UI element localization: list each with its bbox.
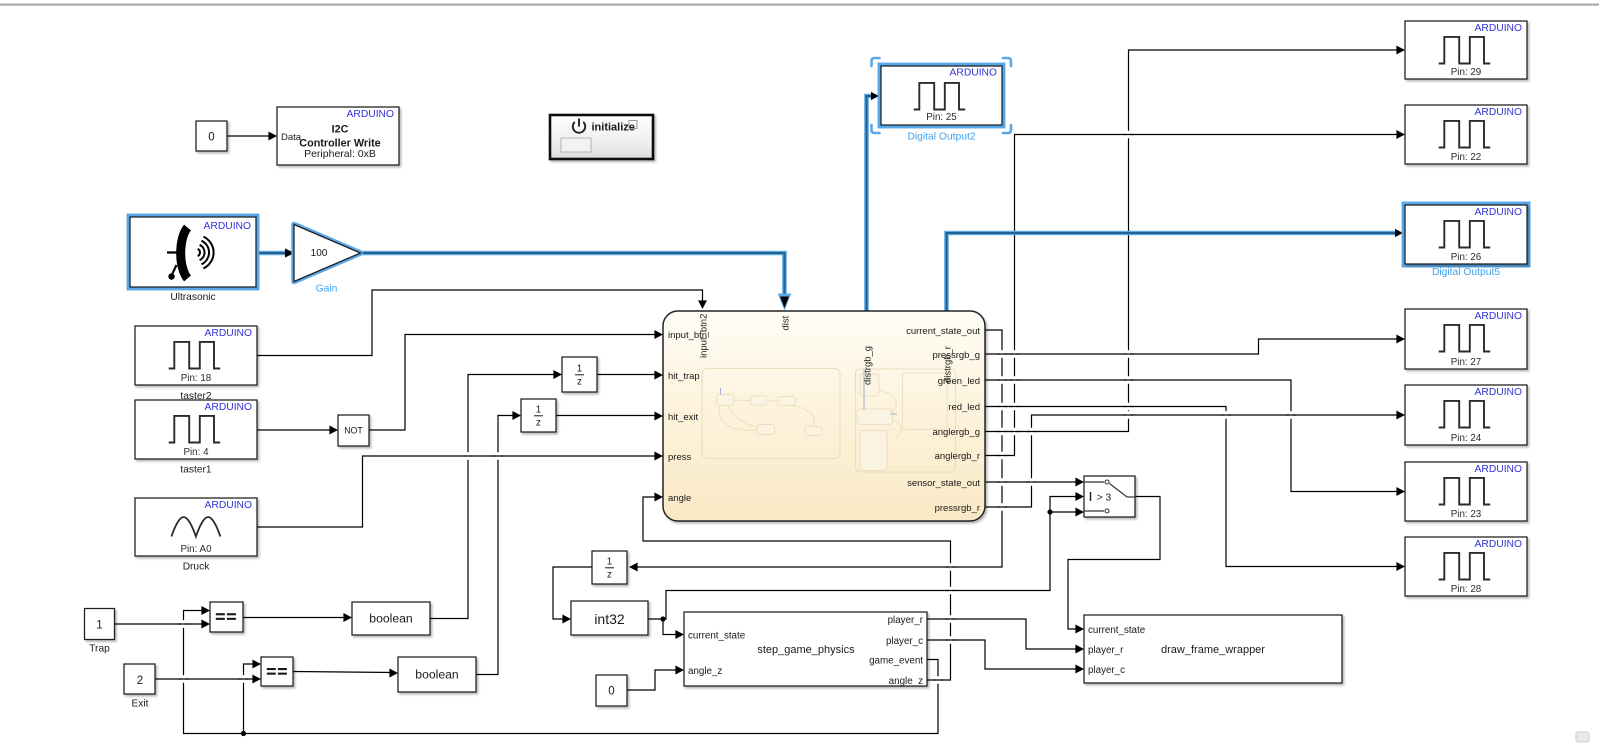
svg-text:Pin: 27: Pin: 27 <box>1451 357 1482 368</box>
wire: unit delay3 to int32 <box>553 567 592 619</box>
wire: int32 output junction <box>648 619 682 635</box>
block: boolean1 data type conversion <box>352 602 430 635</box>
svg-text:1: 1 <box>96 619 102 631</box>
svg-text:NOT: NOT <box>344 426 363 436</box>
svg-text:Pin: 29: Pin: 29 <box>1451 67 1482 78</box>
wire: step angle_z feedback to chart angle <box>643 497 951 680</box>
wire: taster2 to chart input_btn2 (up and over) <box>257 290 703 356</box>
svg-text:1: 1 <box>536 404 541 415</box>
wire: chart red_led to Pin28 <box>985 407 1403 567</box>
svg-text:Peripheral: 0xB: Peripheral: 0xB <box>304 148 376 160</box>
wire: ==2 to boolean2 <box>293 672 396 673</box>
wire: constant 0 to I2C Data <box>227 135 275 137</box>
svg-text:Pin: 23: Pin: 23 <box>1451 509 1482 520</box>
svg-text:draw_frame_wrapper: draw_frame_wrapper <box>1161 644 1265 656</box>
block: step_game_physics subsystem <box>684 612 927 686</box>
wire: ==1 to boolean1 <box>243 617 350 619</box>
top window frame line <box>0 4 1599 6</box>
svg-text:Pin: A0: Pin: A0 <box>180 544 212 555</box>
wire: taster1 to NOT <box>257 429 336 431</box>
wire: Druck to chart press <box>257 456 661 527</box>
svg-text:ARDUINO: ARDUINO <box>204 221 251 232</box>
svg-text:pressrgb_g: pressrgb_g <box>932 350 980 361</box>
block: Gain 100 (selected) <box>294 225 361 282</box>
bottom-right scroll corner mark <box>1576 732 1589 742</box>
svg-text:sensor_state_out: sensor_state_out <box>907 478 980 489</box>
svg-text:Pin: 4: Pin: 4 <box>183 447 209 458</box>
block: constant 2 Exit <box>124 664 155 694</box>
svg-text:int32: int32 <box>594 611 625 627</box>
svg-text:ARDUINO: ARDUINO <box>1475 387 1522 398</box>
svg-text:dist: dist <box>781 315 792 330</box>
junction: switch data-3 branch <box>1050 511 1082 513</box>
block: unit delay 2 <box>521 399 556 432</box>
block: boolean2 data type conversion <box>398 657 476 692</box>
svg-text:initialize: initialize <box>592 122 635 134</box>
block: Digital Output5 Pin 26 (selected) <box>1404 204 1528 265</box>
block: unit delay 3 (mirrored) <box>592 551 627 584</box>
wire: switch output to draw_frame_wrapper current_state <box>1068 497 1160 630</box>
block: I2C Controller Write <box>277 107 399 165</box>
junction: bottom feedback branch <box>244 664 260 734</box>
svg-text:ARDUINO: ARDUINO <box>1475 107 1522 118</box>
svg-text:ARDUINO: ARDUINO <box>1475 464 1522 475</box>
block: Digital Output Pin 27 <box>1405 309 1527 369</box>
svg-text:player_c: player_c <box>886 636 923 647</box>
svg-text:ARDUINO: ARDUINO <box>1475 539 1522 550</box>
selection corner brackets <box>872 58 1012 133</box>
svg-text:red_led: red_led <box>948 402 980 413</box>
svg-text:angle_z: angle_z <box>688 666 722 677</box>
block: Constant 0 (top) <box>196 121 227 151</box>
svg-text:player_r: player_r <box>1088 645 1124 656</box>
svg-text:current_state: current_state <box>1088 625 1146 636</box>
block: Digital Output Pin 22 <box>1405 105 1527 164</box>
svg-text:current_state_out: current_state_out <box>906 326 980 337</box>
wire: chart current_state_out to unit delay3 <box>631 330 1002 567</box>
block: Digital Output Pin 24 <box>1405 385 1527 445</box>
svg-text:anglergb_g: anglergb_g <box>932 427 980 438</box>
block: Digital Output Pin 23 <box>1405 462 1527 521</box>
wire: step player_c to draw_frame_wrapper player_c <box>927 640 1082 669</box>
block: int32 data type conversion <box>571 601 648 635</box>
block: Ultrasonic sensor (selected) <box>129 216 257 288</box>
block: relational operator ==1 <box>210 602 243 632</box>
svg-text:step_game_physics: step_game_physics <box>757 644 855 656</box>
svg-text:Exit: Exit <box>132 699 149 710</box>
wire (highlighted): chart distrgb_g up to Pin25 <box>867 96 875 311</box>
wire: chart sensor_state_out to switch input1 <box>985 481 1082 483</box>
svg-text:Trap: Trap <box>89 644 110 655</box>
block: draw_frame_wrapper subsystem <box>1084 615 1342 683</box>
svg-text:ARDUINO: ARDUINO <box>1475 207 1522 218</box>
wire crossing gaps (Simulink line-crossing style) <box>179 131 1297 684</box>
svg-text:input_btn2: input_btn2 <box>699 314 710 358</box>
block: initialize button <box>550 115 653 159</box>
block: NOT logical operator <box>338 415 369 446</box>
block: taster1 Pin 4 <box>135 400 257 459</box>
svg-text:0: 0 <box>208 132 214 144</box>
svg-text:Druck: Druck <box>183 562 211 573</box>
wire: constant 2 to == bottom relational <box>155 678 259 680</box>
block: unit delay 1 <box>562 357 597 392</box>
svg-text:ARDUINO: ARDUINO <box>1475 23 1522 34</box>
svg-text:pressrgb_r: pressrgb_r <box>935 503 980 514</box>
svg-text:game_event: game_event <box>869 656 923 667</box>
svg-text:Pin: 24: Pin: 24 <box>1451 433 1482 444</box>
block: constant 1 Trap <box>85 609 115 640</box>
block: Digital Output Pin 29 <box>1405 21 1527 79</box>
wire: chart anglergb_r to Pin22 <box>985 135 1403 456</box>
wire (highlighted): chart distrgb_r up to Pin26 <box>947 233 1399 311</box>
svg-text:angle: angle <box>668 493 691 504</box>
wire: int32 to switch control (up and over) <box>663 512 1050 619</box>
wire: chart anglergb_g to Pin29 <box>985 50 1403 432</box>
svg-text:Digital Output2: Digital Output2 <box>907 132 975 143</box>
icon: ultrasonic dish <box>181 228 188 279</box>
svg-text:Digital Output5: Digital Output5 <box>1432 267 1500 278</box>
svg-text:0: 0 <box>608 686 614 698</box>
svg-text:1: 1 <box>577 363 582 374</box>
block: Digital Output2 Pin 25 (selected) <box>880 65 1003 126</box>
svg-text:2: 2 <box>137 675 143 687</box>
block: Druck Pin A0 <box>135 498 257 556</box>
svg-text:taster1: taster1 <box>180 465 211 476</box>
svg-text:ARDUINO: ARDUINO <box>1475 311 1522 322</box>
block: taster2 Pin 18 <box>135 326 257 385</box>
svg-text:hit_exit: hit_exit <box>668 412 698 423</box>
svg-text:Pin: 18: Pin: 18 <box>181 373 212 384</box>
svg-text:z: z <box>577 377 582 388</box>
svg-text:Pin: 25: Pin: 25 <box>926 112 957 123</box>
svg-text:ARDUINO: ARDUINO <box>950 68 997 79</box>
svg-text:1: 1 <box>607 556 612 567</box>
wire: constant 1 to == top-left relational <box>114 623 208 625</box>
wire: unit delay1 to chart hit_trap <box>597 374 661 376</box>
svg-text:current_state: current_state <box>688 631 746 642</box>
svg-text:distrgb_r: distrgb_r <box>943 346 954 383</box>
svg-text:100: 100 <box>311 248 328 259</box>
svg-text:distrgb_g: distrgb_g <box>863 346 874 385</box>
svg-text:boolean: boolean <box>415 668 458 682</box>
wire: game_event feedback long bottom run to == blocks <box>184 611 939 734</box>
svg-text:Pin: 22: Pin: 22 <box>1451 152 1482 163</box>
svg-text:Pin: 28: Pin: 28 <box>1451 584 1482 595</box>
wire: chart pressrgb_r to Pin24 <box>985 415 1403 507</box>
wire: constant 0 to step angle_z <box>627 670 682 690</box>
svg-text:Ultrasonic: Ultrasonic <box>170 292 215 303</box>
wire: chart green_led to Pin23 <box>985 380 1403 492</box>
svg-text:boolean: boolean <box>369 612 412 626</box>
block: Stateflow chart (game logic) <box>663 311 985 521</box>
svg-text:z: z <box>607 570 612 581</box>
svg-text:player_c: player_c <box>1088 665 1125 676</box>
block: constant 0 (bottom) <box>596 675 627 706</box>
wire (highlighted): Ultrasonic to Gain <box>257 251 292 256</box>
wire: boolean1 up to unit delay1 <box>430 375 560 619</box>
svg-text:z: z <box>536 418 541 429</box>
block: Digital Output Pin 28 <box>1405 537 1527 596</box>
wire (highlighted): Gain to chart dist <box>361 253 785 299</box>
block: relational operator ==2 <box>261 657 293 686</box>
svg-text:> 3: > 3 <box>1097 493 1112 504</box>
svg-text:ARDUINO: ARDUINO <box>205 402 252 413</box>
wire: unit delay2 to chart hit_exit <box>556 415 661 417</box>
svg-text:ARDUINO: ARDUINO <box>205 328 252 339</box>
svg-text:press: press <box>668 452 691 463</box>
wire: chart pressrgb_g to Pin27 <box>985 339 1403 354</box>
wire: step player_r to draw_frame_wrapper player_r <box>927 619 1082 649</box>
svg-text:anglergb_r: anglergb_r <box>935 451 980 462</box>
svg-text:ARDUINO: ARDUINO <box>205 500 252 511</box>
svg-text:player_r: player_r <box>888 615 924 626</box>
svg-text:I2C: I2C <box>332 124 349 136</box>
block: switch u2>3 <box>1084 476 1135 517</box>
chart preview watermark <box>702 369 956 473</box>
wire: NOT to chart input_btn <box>369 335 661 431</box>
svg-text:angle_z: angle_z <box>889 676 923 687</box>
svg-text:Pin: 26: Pin: 26 <box>1451 252 1482 263</box>
svg-text:ARDUINO: ARDUINO <box>347 109 394 120</box>
svg-text:Gain: Gain <box>316 284 338 295</box>
svg-text:hit_trap: hit_trap <box>668 371 700 382</box>
wire: boolean2 up to unit delay2 <box>476 416 519 675</box>
